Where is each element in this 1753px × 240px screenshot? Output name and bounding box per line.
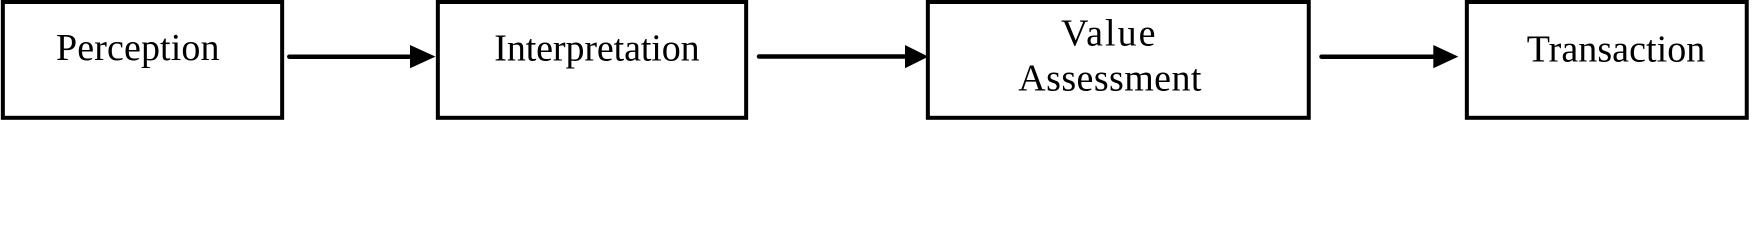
box Value Assessment <box>928 2 1309 118</box>
arrow 1 (Perception to Interpretation) <box>289 45 435 68</box>
svg-text:Assessment: Assessment <box>1018 57 1202 99</box>
arrow 3 (Value Assessment to Transaction) <box>1322 45 1459 68</box>
svg-text:Value: Value <box>1061 13 1156 55</box>
arrow 2 (Interpretation to Value Assessment) <box>759 45 928 68</box>
svg-text:Perception: Perception <box>56 27 220 69</box>
box Perception <box>3 2 282 118</box>
svg-text:Interpretation: Interpretation <box>494 28 699 70</box>
box Interpretation <box>438 2 746 118</box>
svg-text:Transaction: Transaction <box>1527 28 1706 70</box>
box Transaction <box>1467 2 1747 118</box>
